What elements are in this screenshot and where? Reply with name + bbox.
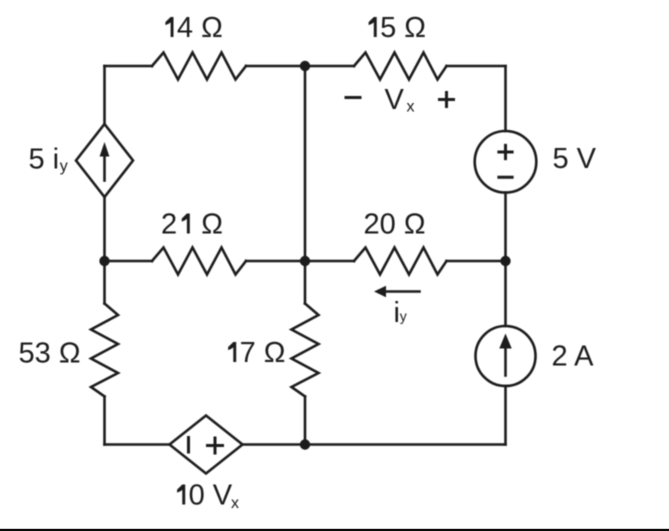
wire right column middle <box>504 193 507 326</box>
plus sign inside V1 <box>499 145 512 158</box>
Vx plus sign <box>440 93 454 107</box>
label 17 ohm <box>228 342 236 362</box>
svg-text:y: y <box>60 158 68 175</box>
label 15 ohm <box>369 17 377 37</box>
plus sign inside U2 <box>208 438 223 453</box>
resistor R1 14ohm <box>152 53 246 80</box>
wire top right to corner <box>447 65 506 68</box>
wire bottom left <box>105 443 170 446</box>
wire top middle <box>246 65 354 68</box>
svg-text:5 V: 5 V <box>553 143 597 175</box>
arrow inside U1 <box>103 156 106 181</box>
wire middle column to 17ohm <box>304 261 307 304</box>
label 14 ohm <box>165 17 173 37</box>
svg-text:V: V <box>385 84 405 116</box>
minus sign inside V1 <box>499 176 512 179</box>
svg-text:5 Ω: 5 Ω <box>380 12 426 44</box>
arrow inside I1 <box>504 348 507 376</box>
wire top-left horizontal <box>105 65 153 68</box>
resistor R4 20ohm <box>354 248 447 275</box>
node A top <box>300 61 310 71</box>
wire bottom right <box>243 443 506 446</box>
node C mid-center <box>300 256 310 266</box>
resistor R2 15ohm <box>354 53 447 80</box>
resistor R3 21ohm <box>152 248 246 275</box>
wire middle row right <box>447 260 506 263</box>
wire left column mid <box>103 197 106 261</box>
current source I1 2A circle <box>476 326 536 386</box>
svg-text:x: x <box>407 99 415 116</box>
svg-text:4 Ω: 4 Ω <box>177 12 223 44</box>
wire left column to 53ohm <box>103 261 106 304</box>
wire right column bottom <box>504 386 507 445</box>
svg-text:2 A: 2 A <box>552 341 595 373</box>
label 10 Vx <box>177 485 185 505</box>
wire middle row center <box>246 260 354 263</box>
voltage source V1 5V circle <box>475 131 537 193</box>
wire right column top <box>504 66 507 131</box>
bottom border bar <box>0 529 669 531</box>
dependent voltage source U2 10Vx diamond <box>170 416 243 474</box>
minus bar inside U2 <box>187 438 190 453</box>
wire middle row left <box>105 260 153 263</box>
node E bottom <box>300 439 310 449</box>
Vx minus sign <box>346 96 360 99</box>
wire middle column lower <box>304 397 307 445</box>
svg-text:x: x <box>231 495 239 512</box>
dependent current source U1 5iy diamond <box>76 124 133 197</box>
svg-text:0 V: 0 V <box>189 480 233 512</box>
node D mid-right <box>500 256 510 266</box>
svg-text:y: y <box>400 308 407 324</box>
current arrow iy near 20ohm <box>385 290 420 293</box>
wire middle column upper <box>304 66 307 261</box>
wire left column upper <box>103 66 106 124</box>
wire left column bottom <box>103 397 106 445</box>
svg-text:2: 2 <box>161 209 177 241</box>
svg-text:Ω: Ω <box>201 209 223 241</box>
node B mid-left <box>99 256 109 266</box>
svg-text:5 i: 5 i <box>29 144 60 176</box>
svg-text:20 Ω: 20 Ω <box>364 209 426 241</box>
svg-text:7 Ω: 7 Ω <box>240 337 286 369</box>
resistor R6 17ohm vertical <box>292 304 319 397</box>
svg-text:53 Ω: 53 Ω <box>19 338 81 370</box>
resistor R5 53ohm vertical <box>91 304 118 397</box>
